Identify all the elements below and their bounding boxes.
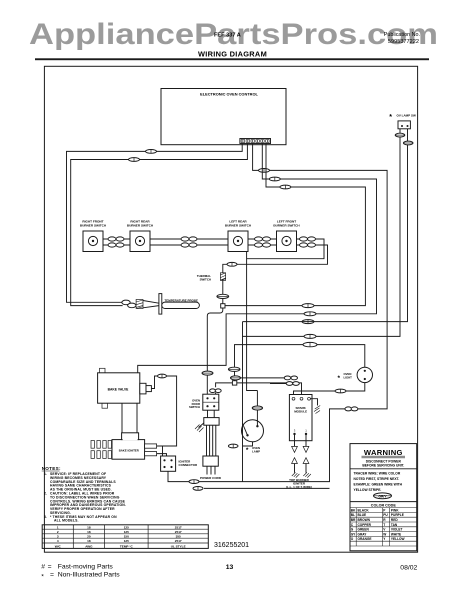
thermal label bbox=[197, 274, 211, 281]
warning subtitle bbox=[362, 460, 404, 468]
svg-text:125: 125 bbox=[124, 530, 129, 534]
svg-text:BURNER SWITCH: BURNER SWITCH bbox=[127, 223, 154, 227]
svg-text:Fast-moving Parts: Fast-moving Parts bbox=[58, 563, 114, 570]
warning divider 2 bbox=[350, 501, 417, 503]
model number text bbox=[214, 33, 241, 39]
watermark AppliancePartsPros.com bbox=[29, 18, 438, 51]
double connector pair on stub rows bbox=[284, 376, 299, 385]
wire Q S4 lower row to thermal plug and probe node bbox=[223, 245, 328, 304]
connector on line A bbox=[302, 304, 314, 308]
connector on light bottom run bbox=[335, 389, 346, 393]
svg-text:BURNER SWITCH: BURNER SWITCH bbox=[80, 223, 107, 227]
wire igniter tabs to connector bbox=[157, 446, 167, 456]
wire node to spark module pin2 bbox=[237, 383, 302, 395]
wire gauge table bbox=[42, 525, 208, 549]
svg-text:WARNING: WARNING bbox=[364, 448, 403, 457]
switch S4 left front bbox=[273, 220, 300, 252]
connector on lamp-sw left wire bbox=[395, 133, 405, 137]
svg-text:4: 4 bbox=[57, 539, 59, 543]
connector on line E bbox=[303, 342, 317, 346]
top burner igniter label bbox=[286, 478, 312, 489]
svg-text:T: T bbox=[383, 523, 385, 527]
node probe junction bbox=[221, 304, 225, 308]
oven lamp bbox=[242, 420, 264, 454]
connector on igniter-switch column bbox=[202, 371, 213, 375]
notes item 3 bbox=[44, 515, 117, 523]
electronic oven control U1 bbox=[161, 89, 286, 145]
wire lamp circuit stub rows bbox=[230, 378, 297, 384]
wire oven light bottom run to spark pin1 bbox=[294, 383, 365, 397]
svg-text:LIGHT: LIGHT bbox=[344, 375, 353, 379]
power cord bbox=[195, 418, 222, 481]
publication no label bbox=[384, 32, 420, 38]
svg-text:BR: BR bbox=[351, 518, 356, 522]
temperature probe connector ovals bbox=[122, 300, 136, 308]
footer date bbox=[400, 564, 417, 571]
spark gap igniter 1 bbox=[292, 435, 300, 478]
notes heading bbox=[42, 466, 61, 471]
title rule bbox=[35, 58, 429, 60]
svg-text:NOTED FIRST, STRIPE NEXT.: NOTED FIRST, STRIPE NEXT. bbox=[354, 477, 400, 481]
svg-text:BAKE IGNITER: BAKE IGNITER bbox=[119, 448, 139, 452]
svg-text:POWER CORD: POWER CORD bbox=[200, 476, 222, 480]
connector on lamp-sw right wire bbox=[403, 141, 413, 145]
wire EOC pin2 to left column bbox=[71, 144, 248, 306]
svg-text:YELLOW: YELLOW bbox=[391, 537, 405, 541]
svg-text:BLUE: BLUE bbox=[358, 513, 367, 517]
EOC connector strip P1 bbox=[240, 139, 271, 144]
wire lamp switch right lead line C bbox=[243, 129, 408, 322]
diagram border bbox=[44, 66, 417, 552]
svg-text:VIOLET: VIOLET bbox=[391, 528, 403, 532]
connector on pin3 stub bbox=[259, 169, 270, 173]
svg-text:1: 1 bbox=[57, 525, 59, 529]
svg-text:3: 3 bbox=[57, 535, 59, 539]
footer non-illustrated note bbox=[41, 571, 120, 580]
wire lamp slant bbox=[243, 424, 248, 436]
svg-text:2517: 2517 bbox=[175, 525, 182, 529]
igniter switch box bbox=[189, 394, 219, 410]
temperature probe plug bbox=[136, 300, 143, 309]
notes item 1 bbox=[44, 472, 116, 492]
wire node to igniter switch right pin bbox=[216, 383, 233, 387]
wire lamp bottom to connector run bbox=[243, 442, 253, 446]
connector on wire pin1 bbox=[146, 150, 157, 154]
switch S3 left rear bbox=[225, 220, 252, 252]
node mid junction bbox=[232, 381, 236, 385]
svg-text:18: 18 bbox=[87, 530, 91, 534]
svg-text:UL STYLE: UL STYLE bbox=[171, 544, 186, 548]
wire EOC pin1 to left column bbox=[67, 144, 243, 303]
igniter connector box bbox=[161, 456, 198, 471]
svg-text:SWITCH: SWITCH bbox=[200, 277, 211, 281]
svg-text:=: = bbox=[48, 563, 52, 570]
wire EOC pin5 loop right line A to probe node bbox=[225, 144, 365, 306]
wire bake valve bottom leads bbox=[122, 403, 137, 439]
svg-text:TRACER WIRE: WIRE COLOR: TRACER WIRE: WIRE COLOR bbox=[354, 471, 401, 475]
svg-text:150: 150 bbox=[124, 535, 129, 539]
svg-text:316255201: 316255201 bbox=[214, 542, 249, 549]
temperature probe flange bbox=[159, 294, 162, 315]
connector on pin5 stub bbox=[280, 185, 291, 189]
connector on line D bbox=[304, 334, 316, 338]
svg-text:BLACK: BLACK bbox=[358, 508, 370, 512]
bake valve bbox=[98, 368, 152, 408]
svg-text:BROWN: BROWN bbox=[358, 518, 371, 522]
svg-text:355: 355 bbox=[176, 535, 181, 539]
svg-text:Publication No.: Publication No. bbox=[384, 32, 420, 38]
svg-text:2517: 2517 bbox=[175, 530, 182, 534]
svg-text:PU: PU bbox=[383, 513, 388, 517]
svg-text:CONNECTOR: CONNECTOR bbox=[179, 463, 198, 467]
connector on bake valve tab wire bbox=[158, 374, 167, 378]
svg-text:FEF 337 A: FEF 337 A bbox=[214, 33, 241, 39]
connector left stub bbox=[231, 376, 241, 380]
svg-text:08/02: 08/02 bbox=[400, 564, 417, 571]
footer page number bbox=[226, 564, 234, 571]
svg-text:18: 18 bbox=[87, 539, 91, 543]
svg-text:SWITCH: SWITCH bbox=[189, 405, 200, 409]
warning title bbox=[362, 448, 406, 458]
svg-text:2517: 2517 bbox=[175, 539, 182, 543]
svg-text:GR/Y: GR/Y bbox=[378, 494, 387, 498]
svg-text:2.: 2. bbox=[44, 492, 47, 496]
burner switch wires row bbox=[103, 239, 277, 245]
connector on wire Q bbox=[227, 262, 237, 266]
connector on lamp top column bbox=[252, 406, 262, 410]
svg-text:PURPLE: PURPLE bbox=[391, 513, 404, 517]
wire line E oven light to node column bbox=[235, 345, 365, 381]
connector on 409 line bbox=[345, 407, 358, 411]
svg-text:18: 18 bbox=[87, 525, 91, 529]
tracer wire text bbox=[354, 471, 403, 492]
connector on probe column bbox=[217, 294, 229, 298]
warning divider 1 bbox=[350, 468, 417, 470]
connector pair S4-right bbox=[300, 237, 316, 247]
connector on 481 run bbox=[189, 480, 199, 484]
wire gauge table text bbox=[55, 525, 186, 548]
svg-text:W/C: W/C bbox=[55, 544, 62, 548]
svg-text:WIRING DIAGRAM: WIRING DIAGRAM bbox=[198, 49, 267, 58]
wire power cord lower run bbox=[204, 487, 330, 489]
svg-text:*: * bbox=[41, 574, 44, 581]
svg-text:YELLOW STRIPE.: YELLOW STRIPE. bbox=[354, 488, 382, 492]
svg-text:ELECTRONIC OVEN CONTROL: ELECTRONIC OVEN CONTROL bbox=[200, 91, 258, 96]
connector on 488 run bbox=[193, 487, 203, 491]
connector on line C bbox=[302, 320, 314, 324]
svg-text:COPPER: COPPER bbox=[358, 523, 372, 527]
svg-text:GREEN: GREEN bbox=[358, 528, 370, 532]
svg-text:BK: BK bbox=[351, 508, 356, 512]
switch S1 right front bbox=[80, 220, 107, 252]
wire P S4 to S3 riser and lamp-top feed bbox=[247, 239, 324, 426]
part number bbox=[214, 542, 249, 549]
wire EOC pin4 loop right line B to bake valve bbox=[138, 144, 377, 373]
svg-text:RED: RED bbox=[391, 518, 398, 522]
svg-text:*: * bbox=[389, 114, 392, 121]
footer fast-moving note bbox=[41, 563, 113, 570]
svg-text:MODULE: MODULE bbox=[294, 410, 307, 414]
connector pair S1-S2 bbox=[108, 237, 124, 247]
connector on pin4 stub bbox=[269, 177, 280, 181]
svg-text:COLOR CODE: COLOR CODE bbox=[371, 504, 397, 508]
svg-text:1.: 1. bbox=[44, 472, 47, 476]
spark module bbox=[289, 395, 312, 441]
svg-text:GRAY: GRAY bbox=[358, 532, 368, 536]
switch S2 right rear bbox=[127, 220, 154, 252]
svg-text:BURNER SWITCH: BURNER SWITCH bbox=[225, 223, 252, 227]
svg-text:LAMP: LAMP bbox=[252, 449, 260, 453]
svg-text:5995377222: 5995377222 bbox=[388, 39, 419, 45]
svg-text:BAKE VALVE: BAKE VALVE bbox=[108, 388, 130, 392]
temperature probe taper bbox=[143, 301, 159, 308]
publication number bbox=[388, 39, 419, 45]
svg-text:OV LAMP SW: OV LAMP SW bbox=[397, 114, 416, 118]
spark gap igniter 2 bbox=[303, 435, 311, 478]
svg-text:TAN: TAN bbox=[391, 523, 398, 527]
svg-text:PINK: PINK bbox=[391, 508, 399, 512]
temperature probe body bbox=[162, 298, 200, 308]
GR-Y example oval bbox=[374, 493, 392, 499]
wire probe node to igniter switch bbox=[207, 308, 223, 394]
svg-text:BEFORE SERVICING UNIT.: BEFORE SERVICING UNIT. bbox=[362, 464, 404, 468]
connector on line B bbox=[304, 312, 316, 316]
svg-text:#: # bbox=[41, 563, 45, 570]
svg-text:ORANGE: ORANGE bbox=[358, 537, 372, 541]
connector pair S3-S4 bbox=[255, 237, 271, 247]
svg-text:EXAMPLE: GREEN WIRE WITH: EXAMPLE: GREEN WIRE WITH bbox=[354, 482, 403, 486]
connector on lamp bottom run bbox=[228, 444, 238, 448]
double connector above igniter switch bbox=[210, 389, 222, 394]
wire igniter switch to power cord bbox=[208, 410, 215, 417]
svg-text:=: = bbox=[50, 571, 54, 578]
thermal hatched plug bbox=[220, 273, 225, 281]
bake igniter bbox=[91, 433, 157, 459]
svg-text:AWG: AWG bbox=[85, 544, 93, 548]
svg-text:TEMP °C: TEMP °C bbox=[120, 544, 134, 548]
svg-text:3.: 3. bbox=[44, 515, 47, 519]
svg-text:125: 125 bbox=[124, 539, 129, 543]
svg-text:2: 2 bbox=[57, 530, 59, 534]
title WIRING DIAGRAM bbox=[198, 49, 267, 58]
svg-text:13: 13 bbox=[226, 564, 234, 571]
svg-text:20: 20 bbox=[87, 535, 91, 539]
wire lamp switch left lead line D bbox=[243, 129, 401, 482]
wire spark module ground pin bbox=[310, 399, 320, 414]
svg-text:*: * bbox=[246, 447, 249, 454]
svg-text:TEMPERATURE PROBE: TEMPERATURE PROBE bbox=[165, 298, 199, 302]
svg-text:Non-Illustrated Parts: Non-Illustrated Parts bbox=[58, 571, 121, 578]
svg-text:ALL MODELS.: ALL MODELS. bbox=[54, 519, 79, 523]
svg-text:W: W bbox=[383, 532, 386, 536]
color code table text bbox=[351, 508, 405, 541]
connector pair S2-S3 bbox=[181, 237, 197, 247]
color code table grid bbox=[350, 508, 417, 546]
svg-text:(L.L. 1 OF 5 WIRE): (L.L. 1 OF 5 WIRE) bbox=[286, 485, 312, 489]
connector on line C column bbox=[228, 367, 240, 371]
notes item 2 bbox=[44, 492, 126, 515]
oven light bbox=[338, 367, 373, 382]
warning box bbox=[350, 444, 417, 551]
connector on wire pin2 bbox=[129, 158, 140, 162]
svg-text:*: * bbox=[338, 375, 341, 382]
wire EOC pin3 right-side run to 409 run and 481 run bbox=[168, 144, 387, 482]
svg-text:BURNER SWITCH: BURNER SWITCH bbox=[273, 223, 300, 227]
color code heading bbox=[371, 504, 397, 508]
oven lamp switch bbox=[389, 114, 416, 129]
wire bake valve tab bbox=[151, 376, 176, 446]
svg-text:125: 125 bbox=[124, 525, 129, 529]
svg-text:NOTES:: NOTES: bbox=[42, 466, 61, 471]
svg-text:BL: BL bbox=[351, 513, 355, 517]
svg-text:WHITE: WHITE bbox=[391, 532, 401, 536]
